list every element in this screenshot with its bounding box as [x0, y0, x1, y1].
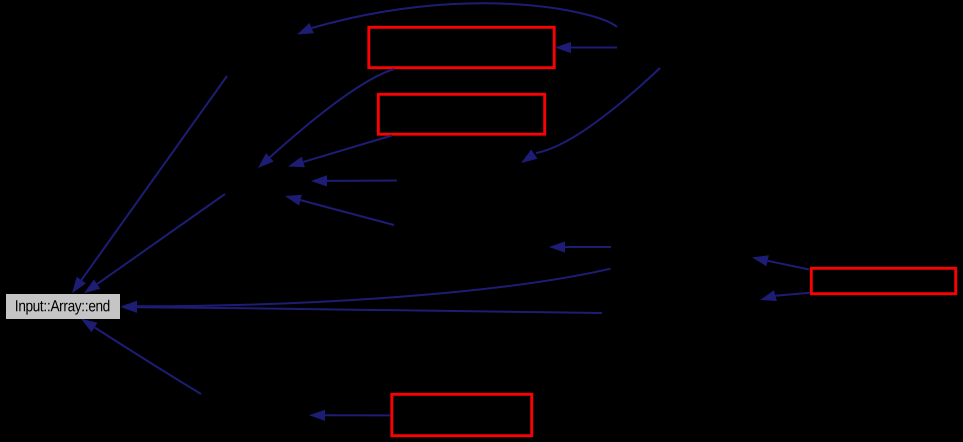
wire E4 from B2 bottom-left to hidden node N1 — [288, 136, 392, 168]
wire E15 from hidden node U into B1 right edge — [555, 42, 617, 53]
wire E8 long curve into Input::Array::end right — [121, 269, 611, 312]
wire E7 horizontal arrow mid-right — [549, 241, 611, 252]
node B4 (truncated caller, bottom) — [392, 394, 532, 435]
wire E13 curve from hidden node N3 into Input::Array::end bottom — [81, 319, 201, 394]
wire E12 from B4 left edge to hidden node N3 — [309, 410, 390, 421]
node B2 (truncated caller, second) — [378, 94, 544, 134]
wire E10 from B3 top-left corner — [752, 255, 809, 269]
node Input::Array::end (current function) — [6, 294, 120, 319]
wire E3 from B1 bottom-left to hidden node N1 — [258, 69, 394, 168]
wire E0 top arc from hidden node U to hidden node far-left — [297, 3, 617, 34]
wire E9 long flat line into Input::Array::end right — [121, 302, 602, 313]
wire E5 horizontal into hidden node N1 — [311, 175, 397, 186]
node B3 (truncated caller, right) — [811, 268, 955, 293]
wire E2 from hidden node N1 into Input::Array::end top — [84, 194, 225, 293]
node B1 (truncated caller, top) — [369, 27, 554, 67]
wire E14 from hidden node U to hidden node N2 — [521, 68, 660, 163]
wire E11 from B3 bottom-left corner — [760, 290, 810, 301]
wire E6 up-left into hidden node N1 — [285, 195, 394, 225]
wire E1 long diagonal into Input::Array::end top — [72, 76, 227, 293]
